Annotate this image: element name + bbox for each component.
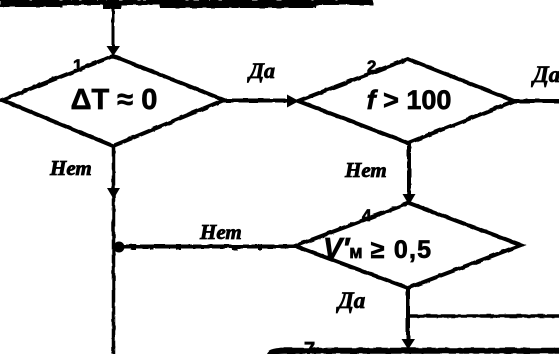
svg-text:Нет: Нет (344, 158, 387, 182)
svg-text:Нет: Нет (49, 156, 92, 180)
svg-text:f > 100: f > 100 (367, 85, 452, 115)
svg-text:V′м ≥ 0,5: V′м ≥ 0,5 (323, 233, 432, 265)
svg-text:ΔT ≈ 0: ΔT ≈ 0 (71, 84, 158, 116)
svg-text:2: 2 (367, 57, 376, 76)
svg-text:Да: Да (531, 62, 559, 87)
svg-text:1: 1 (73, 56, 82, 75)
svg-text:Нет: Нет (199, 220, 242, 244)
svg-text:4: 4 (362, 206, 372, 225)
svg-text:Да: Да (336, 288, 365, 313)
svg-text:7: 7 (304, 339, 315, 354)
svg-text:Да: Да (247, 58, 275, 83)
